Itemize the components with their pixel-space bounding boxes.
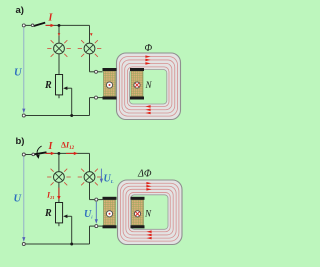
terminal top left (a)	[22, 24, 25, 27]
lamp L1 (b)	[54, 172, 65, 183]
wire: lamp L2 to coil top (a)	[89, 54, 91, 72]
coil winding Lb-outer	[103, 197, 117, 229]
iron core a (outer)	[117, 53, 181, 120]
junction branch node (b)	[57, 152, 60, 155]
wire: switch to junction and lamp2 branch (b)	[46, 152, 90, 154]
svg-text:ΔΦ: ΔΦ	[137, 169, 152, 180]
switch lever (a)	[34, 23, 45, 26]
iron core b (outer)	[118, 180, 183, 245]
wire: bottom rail (b)	[24, 243, 90, 245]
svg-text:b): b)	[16, 136, 25, 147]
wire: wiper arm to junction (a)	[67, 87, 72, 89]
wire: bottom rail (a)	[24, 115, 90, 117]
light rays of lamp L2 (a)	[78, 40, 102, 57]
wire: junction down to lamp L1 (b)	[58, 153, 60, 171]
coil winding La-outer	[103, 68, 117, 100]
light rays of lamp L2 (b)	[78, 169, 102, 186]
wire: resistor bottom stub (a)	[58, 95, 60, 98]
flux lines of core a	[119, 57, 177, 116]
voltage arrow U_i induced (b)	[95, 202, 98, 224]
svg-text:Φ: Φ	[145, 43, 153, 54]
lamp L2 (b)	[84, 172, 95, 183]
wire: coil bottom cap to branch (b)	[90, 225, 103, 227]
resistor R (b)	[56, 203, 63, 223]
core a window	[130, 70, 167, 105]
terminal bottom left (b)	[22, 243, 25, 246]
wiper arrowhead into resistor (a)	[63, 86, 67, 90]
svg-text:a): a)	[16, 5, 24, 16]
terminal coil top (b)	[95, 198, 98, 201]
wire: lamp L2 branch down (b)	[89, 153, 91, 171]
terminal coil bottom (b)	[95, 225, 98, 228]
wire: to coil top cap (b)	[90, 199, 103, 201]
wiper arrowhead into resistor (b)	[63, 215, 67, 219]
wire: top left terminal to switch pivot (b)	[25, 154, 32, 156]
light rays of lamp L1 (a)	[47, 40, 71, 57]
wire: lamp L2 branch down (a)	[89, 25, 91, 43]
current direction cross of Lb-inner	[134, 211, 140, 217]
current arrow I (a)	[46, 24, 55, 27]
switch closing arc arrow (b)	[36, 146, 42, 159]
resistor R (a)	[56, 75, 63, 95]
current direction dot of Lb-outer	[106, 211, 112, 217]
switch lever (b)	[34, 152, 46, 154]
coil winding La-inner	[130, 68, 144, 100]
wire: wiper branch down (b)	[71, 216, 73, 244]
wire: lamp L2 down to coil level (b)	[89, 182, 91, 199]
junction wiper-rail node (a)	[70, 114, 73, 117]
lamp L1 (a)	[54, 43, 65, 54]
small current arrow into lamp 1 (a)	[58, 33, 61, 36]
wire: to coil top cap (a)	[90, 71, 103, 73]
wire: resistor bottom stub (b)	[58, 223, 60, 226]
flux lines of core b	[120, 183, 178, 241]
light rays of lamp L1 (b)	[47, 169, 71, 186]
voltage arrow U (a)	[22, 28, 25, 114]
current direction cross of La-inner	[134, 82, 140, 88]
current arrow delta I (b)	[66, 152, 78, 155]
wire: wiper arm to junction (b)	[67, 215, 72, 217]
wire: junction down to lamp L1 (a)	[58, 25, 60, 43]
wire: lamp L1 to resistor R (a)	[58, 54, 60, 75]
terminal bottom left (a)	[22, 114, 25, 117]
core b window	[131, 195, 168, 230]
terminal coil top (a)	[95, 70, 98, 73]
svg-text:R: R	[44, 208, 52, 219]
wire: coil bottom cap to branch (a)	[90, 97, 103, 99]
wire: coil branch down to rail (b)	[89, 226, 91, 244]
wire: lamp L1 to resistor R (b)	[58, 182, 60, 202]
svg-text:N: N	[145, 80, 153, 90]
switch pivot circle (a)	[31, 24, 34, 27]
svg-text:R: R	[44, 80, 52, 91]
flux arrowheads of core b	[146, 182, 151, 185]
terminal coil bottom (a)	[95, 96, 98, 99]
flux arrowheads of core a	[145, 55, 150, 58]
switch pivot circle (b)	[32, 153, 35, 156]
wire: coil branch down to rail (a)	[89, 98, 91, 116]
small current arrow into lamp 2 (a)	[90, 33, 93, 36]
svg-text:N: N	[144, 209, 152, 219]
voltage arrow U_L lamp (b)	[100, 169, 103, 184]
wire: wiper branch down (a)	[71, 88, 73, 115]
junction branch node (a)	[58, 24, 61, 27]
current arrow I (b)	[46, 152, 55, 155]
wire: top left terminal to switch pivot (a)	[25, 24, 32, 26]
lamp L2 (a)	[84, 43, 95, 54]
current arrow I21 (b)	[57, 188, 60, 200]
voltage arrow U (b)	[22, 157, 25, 242]
current direction dot of La-outer	[106, 82, 112, 88]
terminal top left (b)	[22, 153, 25, 156]
coil winding Lb-inner	[131, 197, 145, 229]
wire: switch to lamp junction and on to lamp2 branch (a)	[46, 24, 90, 26]
junction wiper-rail node (b)	[70, 243, 73, 246]
